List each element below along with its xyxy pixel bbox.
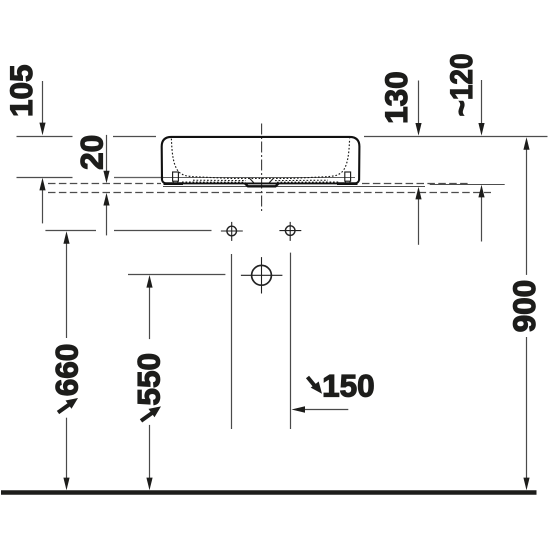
svg-text:105: 105 [3,64,39,117]
dim 105 upper line with down arrow [39,81,45,135]
basin bottom left foot (thicker) [164,182,184,185]
centerline (dash-dot) of basin [261,124,263,212]
660 oblique NE arrow [58,398,78,413]
dim 105 lower line with up arrow [39,178,45,224]
basin bottom right foot (thicker) [337,182,358,185]
mounting hole left circle [221,222,243,241]
mounting holes level extension line segment 2 [114,230,212,232]
basin bottom (105) level extension line segment 1 [17,177,73,179]
130 extension line (solid) [163,186,425,188]
mounting holes level extension line segment 1 [45,230,96,232]
dim 660 line with top up arrow, text gap, bottom down arrow [63,231,69,490]
basin bottom left step [162,180,165,184]
basin top level extension line right [364,136,548,138]
svg-text:~120: ~120 [443,54,479,117]
line below right mounting hole [290,253,292,429]
countertop top dashed line right [362,183,468,185]
countertop surface line through basin [114,177,355,179]
550 oblique NE arrow [141,406,161,421]
mounting hole right circle [279,222,301,241]
basin top level extension line left segment 1 [17,136,73,138]
dim 900 line with top up arrow, text gap, bottom down arrow [523,137,529,490]
dim 20 upper line with down arrow [103,135,109,183]
countertop top dashed line left [48,183,161,185]
150 oblique SE arrow [308,377,323,394]
floor line [1,490,537,495]
svg-text:900: 900 [506,280,542,333]
svg-text:550: 550 [131,353,167,406]
right fixing bracket [345,172,351,181]
dim 130 lower line with up arrow [415,187,421,245]
inner bottom dotted line lower [182,181,339,183]
dim 130 upper line with down arrow [415,81,421,136]
dim ~120 lower line with up arrow [478,185,484,242]
countertop bottom dashed line [48,192,491,194]
right bracket legs [346,181,350,183]
left bracket legs [173,181,177,183]
basin bottom line [164,182,357,184]
svg-text:20: 20 [74,135,110,170]
basin outer outline [162,137,360,181]
faucet hole level extension line (550) [128,274,225,276]
drain funnel right slant [269,178,274,183]
drain cup [245,183,280,186]
dim ~120 upper line with down arrow [478,80,484,136]
inner bowl dotted outline [171,139,349,179]
basin bottom right step [356,180,359,184]
svg-text:660: 660 [49,344,85,397]
left fixing bracket [173,172,179,181]
~120 extension line (solid) [430,184,505,186]
dim 20 lower line with up arrow [103,193,109,236]
dim 150 horizontal line with left arrow [292,406,349,413]
faucet hole big circle [241,257,283,293]
basin top level extension line left segment 2 [113,136,156,138]
basin bottom (105) level extension line segment 2 [114,177,164,179]
svg-text:130: 130 [378,71,414,124]
drain funnel left slant [250,178,255,183]
inner bottom dotted line upper [193,179,328,181]
dim 550 line with top up arrow, text gap, bottom down arrow [146,275,152,490]
svg-text:150: 150 [322,368,375,404]
line below left mounting hole [231,254,233,429]
